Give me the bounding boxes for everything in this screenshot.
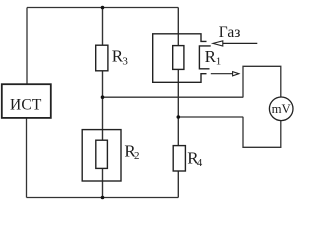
wire branch R3-R2 middle segment	[102, 71, 104, 140]
resistor R2 body	[96, 140, 108, 168]
gas outlet arrowhead (open, pointing right)	[233, 72, 239, 76]
svg-text:3: 3	[122, 56, 128, 68]
resistor R4 body	[173, 146, 185, 171]
wire meter upper loop	[243, 66, 281, 97]
svg-text:2: 2	[134, 150, 140, 162]
wire bottom bus	[27, 197, 179, 199]
svg-text:Газ: Газ	[219, 24, 241, 41]
wire branch R1-R4 middle segment	[177, 69, 179, 145]
wire meter lower loop	[243, 117, 281, 148]
wire left drop from top bus to source ИСТ	[26, 8, 28, 85]
gas inlet arrow shaft	[223, 42, 257, 44]
gas inlet arrowhead (open, pointing left)	[213, 41, 223, 46]
resistor R1 body	[173, 46, 184, 70]
svg-text:4: 4	[197, 157, 203, 169]
svg-text:ИСТ: ИСТ	[10, 96, 42, 113]
wire R1-R4 midpoint to meter lower lead	[178, 116, 243, 118]
junction node bottom bus / R2 branch	[101, 196, 105, 200]
source ИСТ box	[2, 84, 51, 118]
wire branch R3-R2 lower segment	[102, 168, 104, 197]
resistor R3 body	[96, 45, 108, 71]
wire branch R1-R4 lower segment	[177, 171, 179, 198]
svg-text:mV: mV	[272, 102, 292, 116]
gas chamber of R1 with inlet and outlet openings	[153, 34, 207, 83]
millivoltmeter mV circle	[269, 97, 293, 121]
junction node top bus / R3 branch	[101, 6, 105, 10]
reference chamber of R2 (sealed)	[82, 130, 121, 181]
wire branch R1-R4 upper segment	[177, 8, 179, 46]
svg-text:R: R	[205, 47, 217, 66]
wire top bus from source to bridge top	[27, 7, 178, 9]
svg-text:1: 1	[216, 55, 222, 67]
wire bridge midpoint to meter upper lead	[103, 96, 244, 98]
gas outlet arrow shaft	[211, 73, 233, 75]
wire branch R3-R2 upper segment	[102, 8, 104, 46]
gas chamber R1 inner bracket (tube lips around R1 label)	[199, 46, 210, 69]
junction node R3-R2 midpoint	[101, 95, 105, 99]
junction node R1-R4 midpoint	[177, 115, 181, 119]
wire from source bottom down to bottom bus	[26, 118, 28, 198]
